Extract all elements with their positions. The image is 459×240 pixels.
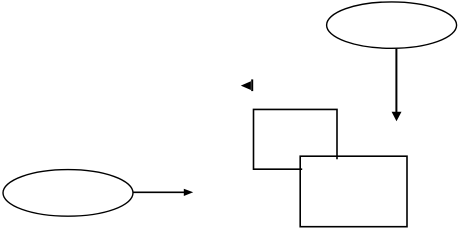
- ellipse bottom-left: [3, 170, 133, 217]
- rectangle small (behind, visible edges): [254, 109, 338, 169]
- rectangle large (front, white fill): [300, 156, 407, 227]
- arrow down from top-right ellipse: [392, 49, 402, 122]
- ellipse top-right: [327, 2, 457, 48]
- arrow right from bottom-left ellipse: [134, 189, 194, 196]
- marker triangle-bar: [241, 79, 253, 91]
